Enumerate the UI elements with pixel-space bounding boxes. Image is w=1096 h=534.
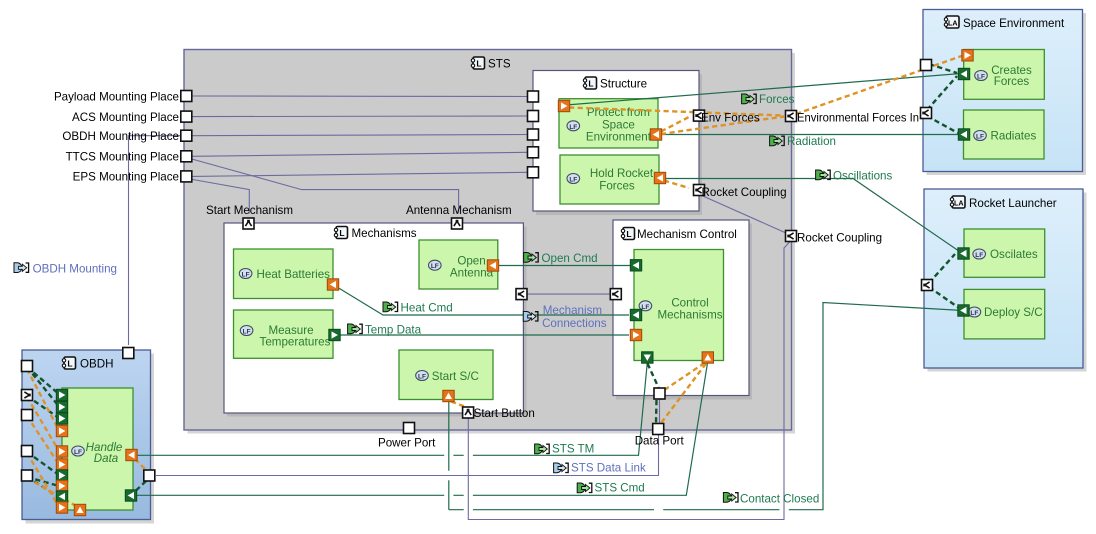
label: Heat Cmd <box>383 302 398 312</box>
port: Env Forces on Structure <box>694 110 705 121</box>
dashed: Space Environment green <box>929 64 957 73</box>
svg-text:ACS Mounting Place: ACS Mounting Place <box>72 111 179 124</box>
svg-text:Structure: Structure <box>600 78 647 91</box>
svg-text:Mechanisms: Mechanisms <box>352 227 417 240</box>
function: Creates Forces <box>964 50 1045 100</box>
port: OBDH left 3 <box>22 410 33 421</box>
OBDH component <box>26 354 155 524</box>
port: OBDH left 5 <box>22 470 33 481</box>
fport: Handle Data d <box>56 425 67 436</box>
fport: Control Mech in1 <box>630 260 641 271</box>
svg-text:Radiates: Radiates <box>991 130 1037 143</box>
wire: Rocket Coupling to Start Button <box>468 242 790 520</box>
port: OBDH top <box>123 348 134 359</box>
STS container <box>188 53 796 434</box>
svg-text:Heat Cmd: Heat Cmd <box>401 302 453 315</box>
svg-text:OBDH Mounting: OBDH Mounting <box>33 263 117 276</box>
fport: Creates Forces orange <box>962 50 973 61</box>
exchange: Oscillations <box>664 179 961 253</box>
dashed: Rocket Launcher green <box>929 254 955 283</box>
port: TTCS Mounting Place <box>181 151 192 162</box>
svg-text:Radiation: Radiation <box>787 135 836 148</box>
exchange: Forces <box>566 74 961 106</box>
svg-text:Temperatures: Temperatures <box>260 335 331 348</box>
label: Radiation <box>770 136 785 146</box>
dashed: Start S/C to Start Button orange <box>451 402 465 407</box>
dashed: Control Mechanisms to Data Port green <box>648 364 659 388</box>
svg-text:Oscillations: Oscillations <box>833 170 892 183</box>
label: Contact Closed <box>723 493 738 503</box>
fport: Radiates in <box>958 129 969 140</box>
fport: Handle Data h <box>56 480 67 491</box>
svg-text:Temp Data: Temp Data <box>365 324 422 337</box>
port: OBDH left 2 <box>22 390 33 401</box>
svg-text:Environment: Environment <box>586 130 652 143</box>
port: Structure left 5 <box>528 167 539 178</box>
fport: Oscilates in <box>958 248 969 259</box>
svg-text:Rocket Coupling: Rocket Coupling <box>702 186 787 199</box>
svg-text:Forces: Forces <box>994 75 1030 88</box>
port: OBDH left 4 <box>22 446 33 457</box>
svg-text:Start S/C: Start S/C <box>432 370 479 383</box>
function: Hold Rocket Forces <box>560 155 659 204</box>
port: Rocket Coupling on Structure <box>694 185 705 196</box>
wire: ACS delegation <box>192 115 528 118</box>
fport: Open Antenna out <box>487 260 498 271</box>
port: Payload Mounting Place <box>181 91 192 102</box>
wire: EPS delegation <box>192 172 528 176</box>
wire: Data Port pair <box>659 399 661 425</box>
svg-text:Mechanism Control: Mechanism Control <box>637 228 737 241</box>
svg-text:Rocket Coupling: Rocket Coupling <box>797 232 882 245</box>
svg-text:Rocket Launcher: Rocket Launcher <box>969 197 1057 210</box>
svg-text:Space Environment: Space Environment <box>963 17 1065 30</box>
dashed: OBDH right green <box>135 481 146 492</box>
Space Environment component <box>927 13 1087 175</box>
port: Start Button <box>463 407 474 418</box>
function: Protect from Space Environment <box>559 99 658 148</box>
label: Forces <box>742 94 757 104</box>
svg-text:Start Mechanism: Start Mechanism <box>206 204 293 217</box>
svg-text:Data: Data <box>94 452 119 465</box>
dashed: Rocket Coupling orange <box>664 181 689 189</box>
svg-text:Data Port: Data Port <box>635 435 685 448</box>
label: Temp Data <box>348 324 363 334</box>
svg-text:Environmental Forces In: Environmental Forces In <box>797 112 919 125</box>
svg-text:OBDH Mounting Place: OBDH Mounting Place <box>62 130 179 143</box>
function: Deploy S/C <box>964 289 1045 339</box>
svg-text:Payload Mounting Place: Payload Mounting Place <box>54 90 179 103</box>
port: Environmental Forces In on Space Environment <box>921 108 932 119</box>
port: Data Port on Mechanism Control <box>654 388 665 399</box>
exchange: Open Cmd <box>498 265 630 267</box>
dashed: OBDH internal green <box>27 367 59 394</box>
label: STS Cmd <box>577 483 592 493</box>
port: Environmental Forces In on STS <box>786 111 797 122</box>
port: Structure left 4 <box>528 147 539 158</box>
port: OBDH left 1 <box>22 361 33 372</box>
svg-text:STS Cmd: STS Cmd <box>595 482 645 495</box>
port: ACS Mounting Place <box>181 111 192 122</box>
STS title <box>471 57 484 69</box>
fport: Control Mech bottom orange <box>702 352 713 363</box>
Rocket Launcher component <box>928 193 1087 372</box>
port: Structure left 3 <box>528 129 539 140</box>
svg-text:OBDH: OBDH <box>80 358 114 371</box>
svg-text:Open: Open <box>457 254 485 267</box>
wire: STS Data Link <box>156 435 659 476</box>
fport: Deploy S/C in <box>958 305 969 316</box>
port: Power Port <box>404 423 415 434</box>
svg-text:Power Port: Power Port <box>378 437 436 450</box>
fport: Handle Data f <box>56 459 67 470</box>
port: Data Port on STS <box>653 424 664 435</box>
svg-text:Heat Batteries: Heat Batteries <box>257 268 331 281</box>
svg-text:Control: Control <box>671 296 708 309</box>
function: Open Antenna <box>419 240 498 289</box>
svg-text:TTCS Mounting Place: TTCS Mounting Place <box>66 151 179 164</box>
function: Oscilates <box>964 229 1045 277</box>
wire: Payload delegation <box>192 95 528 98</box>
svg-text:Oscilates: Oscilates <box>990 248 1038 261</box>
port: OBDH Mounting Place <box>181 130 192 141</box>
function: Start S/C <box>399 350 493 400</box>
function: Radiates <box>964 110 1045 159</box>
exchange: Radiation <box>660 134 961 136</box>
svg-text:STS Data Link: STS Data Link <box>571 462 646 475</box>
svg-text:Antenna Mechanism: Antenna Mechanism <box>406 204 512 217</box>
svg-text:Mechanisms: Mechanisms <box>657 309 722 322</box>
dashed: Env Forces orange chain <box>569 108 784 116</box>
port: EPS Mounting Place <box>181 171 192 182</box>
fport: Start S/C out <box>443 390 454 401</box>
port: OBDH right <box>144 470 155 481</box>
fport: Control Mech bottom green <box>642 352 653 363</box>
svg-text:Forces: Forces <box>599 179 635 192</box>
label: OBDH Mounting <box>14 263 29 273</box>
svg-text:Connections: Connections <box>542 317 607 330</box>
fport: Control Mech in2 <box>630 309 641 320</box>
label: STS TM <box>535 444 550 454</box>
label: Oscillations <box>816 170 831 180</box>
fport: Control Mech in3 <box>630 329 641 340</box>
fport: Measure Temp out <box>329 329 340 340</box>
svg-text:STS: STS <box>488 58 511 71</box>
port: Mechanisms right conn <box>516 289 527 300</box>
fport: Handle Data a <box>56 389 67 400</box>
port: Start Mechanism <box>243 218 254 229</box>
wire: OBDH Mounting <box>129 136 182 345</box>
exchange: STS TM <box>137 363 648 456</box>
fport: Handle Data bottom <box>74 504 85 515</box>
fport: Handle Data c <box>56 413 67 424</box>
svg-text:STS TM: STS TM <box>552 443 594 456</box>
svg-text:Hold Rocket: Hold Rocket <box>590 167 654 180</box>
svg-text:Start Button: Start Button <box>474 407 535 420</box>
fport: Handle Data out Cmd <box>125 490 136 501</box>
fport: Handle Data out TM <box>126 449 137 460</box>
fport: Handle Data i <box>56 491 67 502</box>
fport: Hold Rocket out <box>654 172 665 183</box>
svg-text:Deploy S/C: Deploy S/C <box>984 306 1043 319</box>
dashed: OBDH right orange <box>135 459 146 470</box>
svg-text:EPS Mounting Place: EPS Mounting Place <box>73 171 179 184</box>
fport: PSE out top-left <box>558 100 569 111</box>
port: Rocket Launcher left <box>922 280 933 291</box>
port: Space Environment white <box>921 60 932 71</box>
function: Control Mechanisms <box>634 250 724 361</box>
port: Antenna Mechanism <box>452 218 463 229</box>
port: Rocket Coupling on STS <box>786 231 797 242</box>
wire: OBDH delegation <box>192 135 528 136</box>
label: STS Data Link <box>554 463 569 473</box>
Mechanisms component <box>227 227 527 417</box>
wire: Mechanism Connections <box>527 293 611 295</box>
wire: EPS to Start Mechanism <box>190 179 249 214</box>
function: Handle Data <box>62 388 133 510</box>
svg-text:Forces: Forces <box>759 93 795 106</box>
function: Measure Temperatures <box>234 310 334 358</box>
fport: Handle Data e <box>56 446 67 457</box>
function: Heat Batteries <box>234 249 334 299</box>
label: Mechanism Connections <box>523 312 538 322</box>
fport: Creates Forces in <box>958 68 969 79</box>
wire: TTCS to Antenna Mechanism <box>190 159 459 214</box>
wire: TTCS delegation <box>192 152 528 156</box>
svg-text:Env Forces: Env Forces <box>701 112 760 125</box>
exchange: Contact Closed <box>449 303 963 510</box>
fport: PSE out right <box>650 129 661 140</box>
exchange: STS Cmd <box>137 363 708 495</box>
exchange: Heat Cmd <box>337 287 629 315</box>
fport: Handle Data b <box>56 401 67 412</box>
Mechanism Control component <box>616 224 752 400</box>
fport: Handle Data j <box>56 502 67 513</box>
svg-text:Mechanism: Mechanism <box>543 304 602 317</box>
port: Mechanism Control left conn <box>610 289 621 300</box>
fport: Heat Batteries out <box>327 279 338 290</box>
port: Structure left 1 <box>528 91 539 102</box>
dashed: OBDH internal orange <box>27 369 59 431</box>
port: Structure left 2 <box>528 111 539 122</box>
Structure component <box>536 74 702 215</box>
svg-text:Contact Closed: Contact Closed <box>740 493 819 506</box>
dashed: Control Mechanisms orange <box>665 363 705 390</box>
exchange: Temp Data <box>340 334 629 336</box>
wire: Structure Rocket Coupling to STS Rocket Coupling <box>700 195 787 234</box>
svg-text:Open Cmd: Open Cmd <box>542 252 598 265</box>
label: Open Cmd <box>524 253 539 263</box>
fport: Handle Data g <box>56 470 67 481</box>
